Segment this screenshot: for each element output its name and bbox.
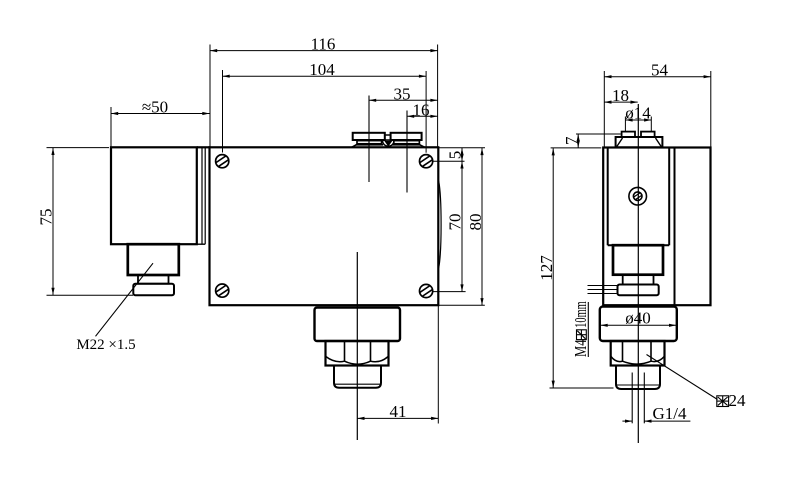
side adjusting screw	[629, 187, 647, 205]
dim 5 and 70 chain	[446, 148, 465, 292]
bottom hex nut (front view)	[326, 341, 389, 366]
svg-text:70: 70	[446, 214, 465, 231]
side slot arc on right edge	[439, 181, 441, 268]
svg-text:G1/4: G1/4	[653, 404, 688, 423]
side cap tab left	[622, 132, 635, 137]
dim 54	[604, 61, 711, 80]
corner screw bottom-right	[420, 284, 433, 297]
label 24 with leader	[647, 355, 747, 411]
svg-text:ø40: ø40	[625, 309, 651, 328]
top cap right plate	[391, 133, 422, 140]
top cap band right	[394, 141, 420, 144]
dim 16	[407, 100, 438, 119]
svg-text:5: 5	[446, 151, 465, 160]
label M4 x 10mm with underline	[571, 301, 590, 357]
top cap center peg	[385, 135, 391, 140]
dim 7	[562, 134, 581, 148]
side view connector module	[608, 148, 670, 246]
G1/4 bore lines	[632, 373, 644, 424]
svg-text:18: 18	[612, 86, 629, 105]
svg-text:80: 80	[466, 214, 485, 231]
side cap tab right	[641, 132, 655, 137]
extension lines front view	[47, 45, 486, 424]
bottom fitting flange (front view)	[315, 308, 401, 342]
svg-text:54: 54	[651, 61, 669, 80]
main body front view	[210, 147, 439, 305]
dim 18	[604, 86, 637, 105]
svg-text:41: 41	[390, 402, 407, 421]
svg-text:M4: M4	[571, 339, 590, 357]
dim 116	[210, 35, 438, 54]
svg-text:24: 24	[729, 391, 747, 410]
svg-text:M22 ×1.5: M22 ×1.5	[76, 337, 135, 353]
side view outer body	[603, 148, 710, 306]
svg-text:10mm: 10mm	[571, 301, 590, 328]
M22 cable gland flange	[133, 284, 174, 296]
dim 127	[537, 148, 556, 388]
side step block	[613, 245, 663, 275]
leader M22	[96, 263, 154, 336]
M4 pointer lines	[588, 286, 620, 294]
side threaded stub	[616, 366, 660, 390]
dim 75	[37, 148, 56, 295]
dim ø40	[601, 309, 677, 328]
label G1/4	[622, 404, 690, 423]
top cap screw triangle	[384, 141, 392, 147]
centerline front view	[356, 252, 358, 440]
svg-text:116: 116	[311, 35, 336, 54]
svg-text:104: 104	[309, 60, 335, 79]
DIN connector housing box (front view)	[111, 147, 211, 244]
dim 41	[357, 402, 438, 421]
centerline side view	[637, 104, 639, 443]
svg-text:≈50: ≈50	[142, 98, 168, 117]
top cap skirt	[352, 145, 425, 147]
side washer flange	[618, 285, 659, 296]
svg-text:16: 16	[413, 100, 430, 119]
inner feature line A	[368, 96, 370, 183]
svg-text:127: 127	[537, 255, 556, 281]
svg-text:75: 75	[37, 209, 56, 226]
dim 80	[466, 148, 485, 305]
side small hex	[611, 341, 665, 366]
side neck	[623, 275, 654, 285]
corner screw top-right	[420, 155, 433, 168]
dim 35	[369, 84, 438, 103]
side hex block ø40	[600, 307, 677, 341]
svg-text:ø14: ø14	[625, 104, 651, 123]
side view divider wall	[674, 148, 676, 306]
M22 cable gland upper block	[128, 244, 179, 275]
extension lines side view	[550, 71, 711, 388]
dim 104	[223, 60, 427, 79]
corner screw top-left	[216, 155, 229, 168]
top cap band left	[357, 141, 382, 144]
inner feature line B	[406, 111, 408, 193]
threaded stub (front view)	[334, 366, 381, 388]
side cap plate	[616, 137, 663, 147]
dim ø14	[625, 104, 651, 123]
top cap left plate	[353, 133, 385, 140]
M22 cable gland neck	[138, 275, 169, 284]
svg-text:35: 35	[394, 84, 411, 103]
corner screw bottom-left	[216, 284, 229, 297]
top cap arc around screw	[383, 141, 394, 147]
dim approx 50	[111, 98, 210, 117]
svg-text:7: 7	[562, 136, 581, 145]
